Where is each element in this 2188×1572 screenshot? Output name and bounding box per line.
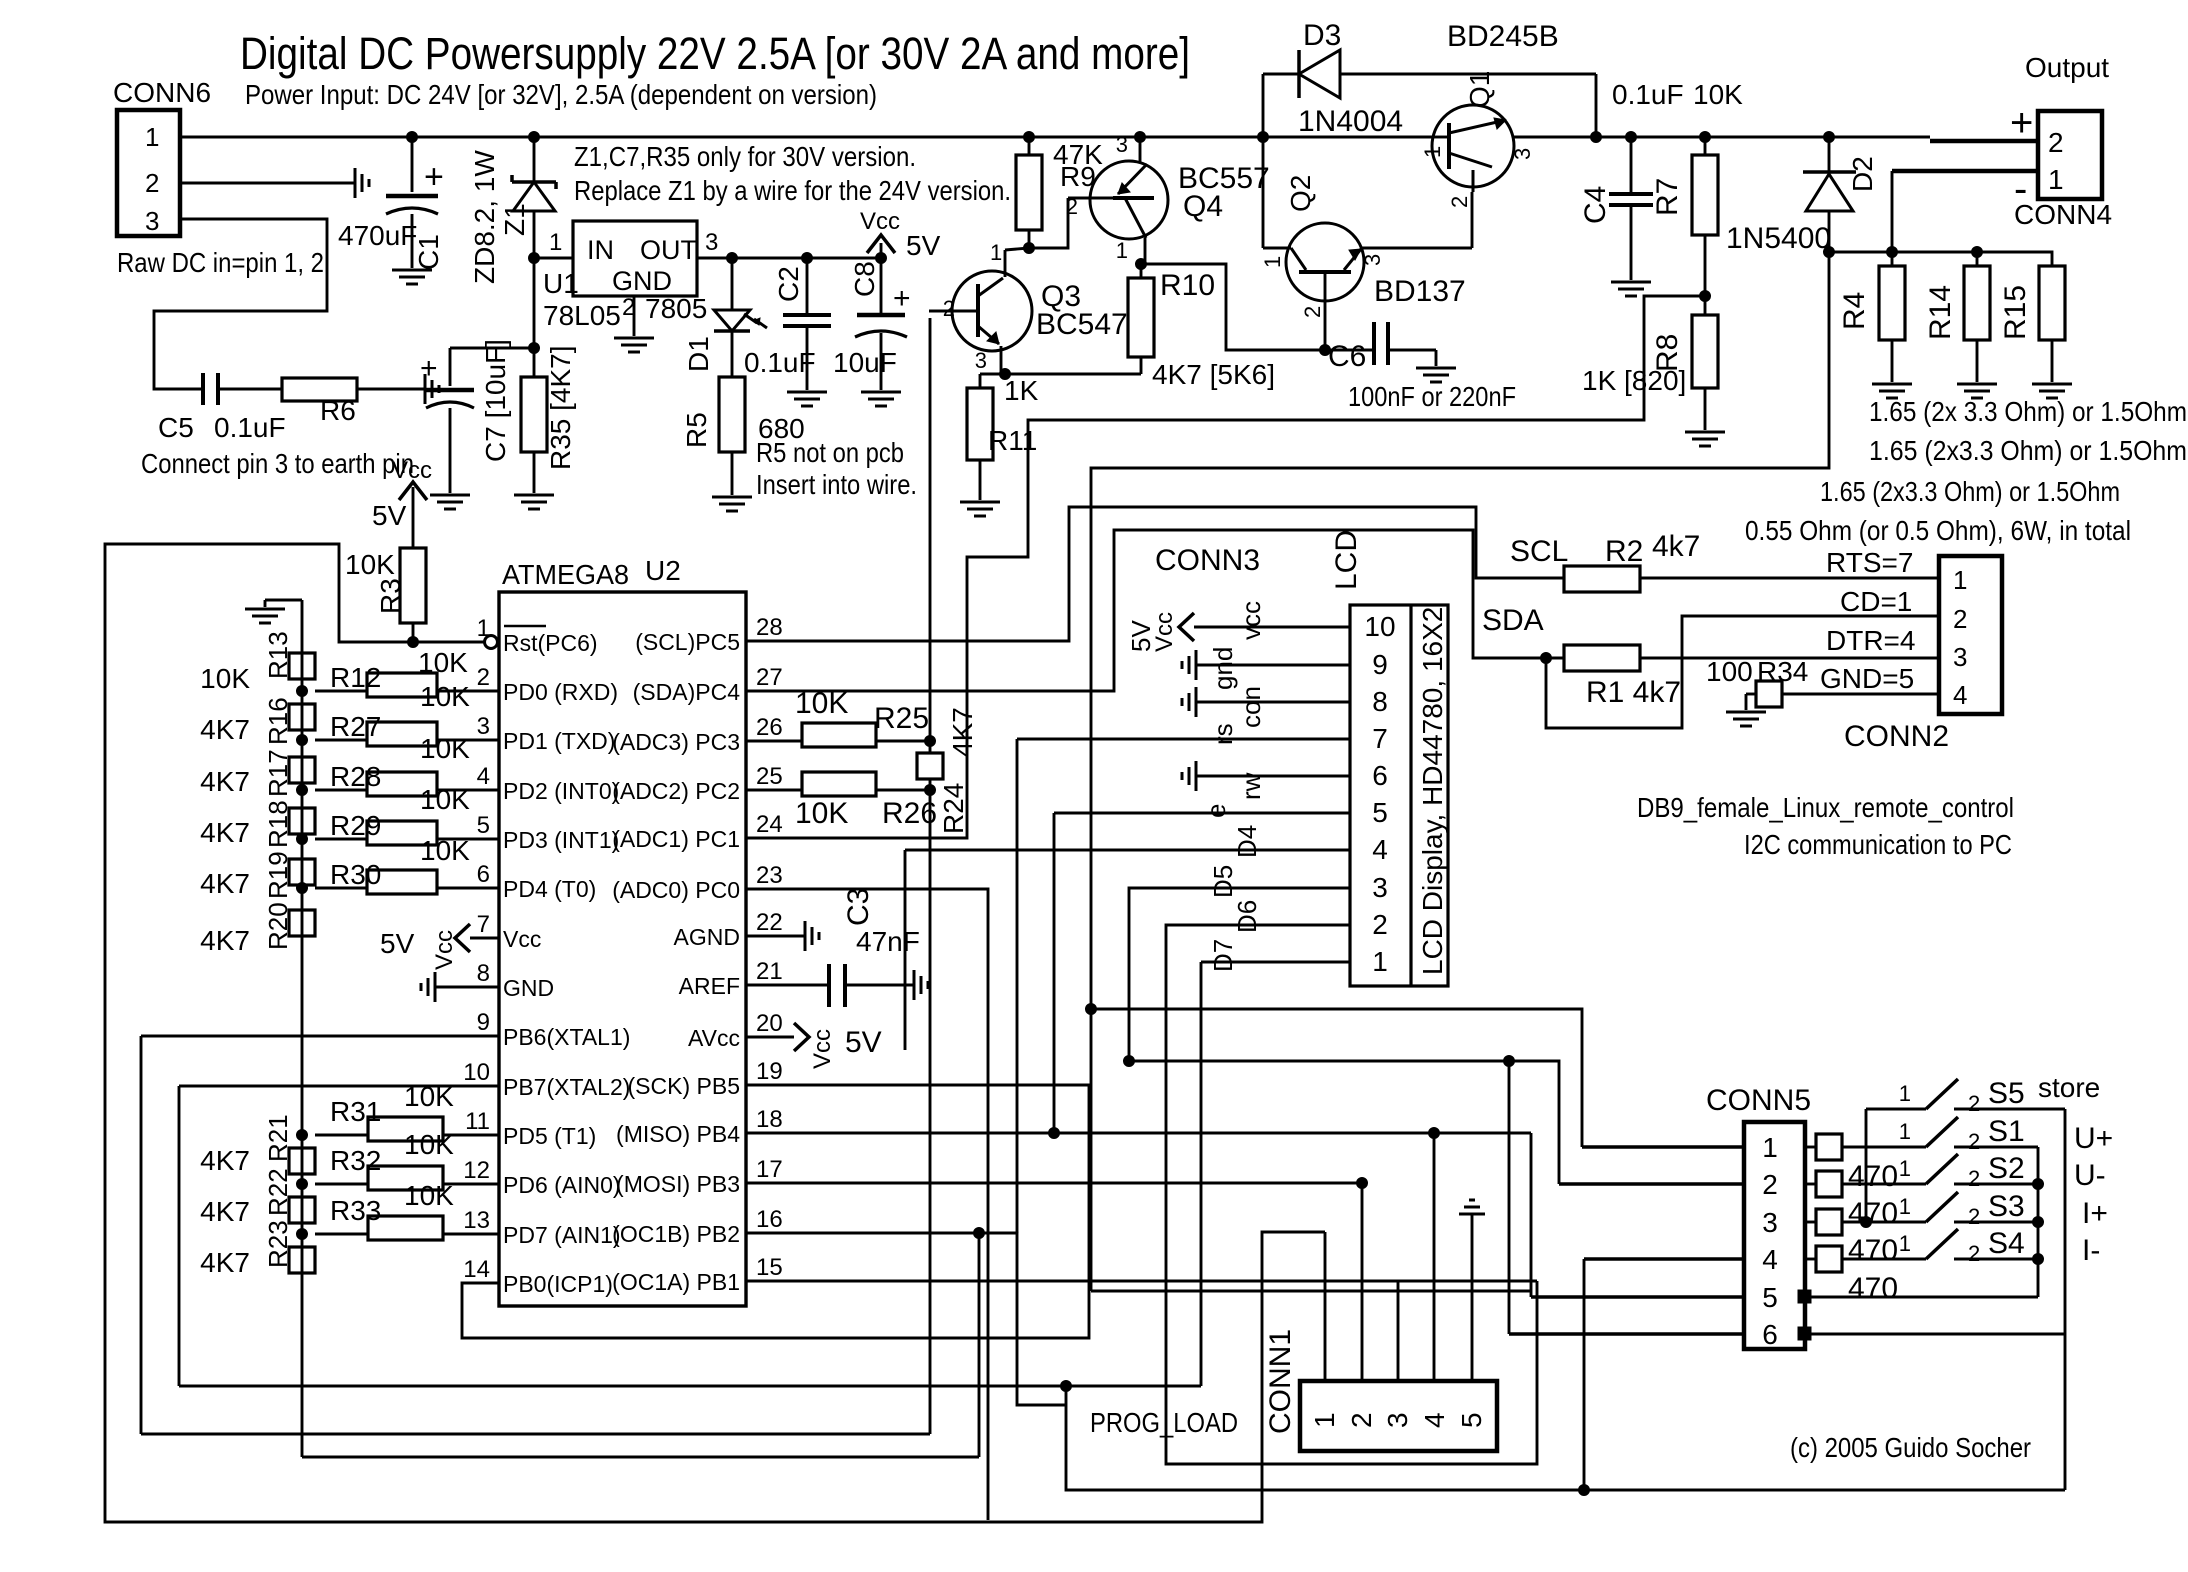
svg-text:3: 3 — [705, 229, 718, 256]
svg-text:5V: 5V — [372, 500, 407, 531]
svg-text:3: 3 — [477, 713, 490, 740]
svg-text:28: 28 — [756, 614, 783, 641]
svg-text:R23: R23 — [263, 1220, 293, 1268]
svg-text:1: 1 — [1953, 565, 1967, 595]
svg-text:R3: R3 — [375, 578, 406, 614]
svg-text:PD3 (INT1): PD3 (INT1) — [503, 827, 619, 853]
svg-text:4: 4 — [1372, 834, 1388, 865]
svg-text:5: 5 — [1456, 1412, 1487, 1428]
svg-text:2: 2 — [1447, 196, 1472, 208]
svg-text:1: 1 — [549, 229, 562, 256]
svg-text:+: + — [2010, 101, 2033, 145]
svg-text:1K [820]: 1K [820] — [1582, 365, 1686, 396]
svg-text:23: 23 — [756, 862, 783, 889]
svg-text:U+: U+ — [2074, 1122, 2113, 1155]
svg-text:100nF or 220nF: 100nF or 220nF — [1348, 381, 1516, 412]
svg-text:5V: 5V — [845, 1026, 882, 1059]
svg-text:1.65 (2x 3.3 Ohm) or 1.5Ohm: 1.65 (2x 3.3 Ohm) or 1.5Ohm — [1869, 396, 2187, 427]
svg-text:CONN1: CONN1 — [1264, 1329, 1297, 1434]
svg-text:4: 4 — [1953, 680, 1967, 710]
svg-text:PB0(ICP1): PB0(ICP1) — [503, 1271, 613, 1297]
svg-text:19: 19 — [756, 1058, 783, 1085]
svg-text:R2: R2 — [1605, 535, 1643, 568]
svg-text:7805: 7805 — [645, 293, 707, 324]
svg-text:R33: R33 — [330, 1195, 381, 1226]
svg-text:14: 14 — [463, 1256, 490, 1283]
svg-text:I2C communication to PC: I2C communication to PC — [1744, 829, 2012, 860]
svg-text:2: 2 — [1968, 1204, 1980, 1229]
svg-text:1: 1 — [1260, 256, 1285, 268]
svg-text:(OC1A) PB1: (OC1A) PB1 — [612, 1269, 740, 1295]
svg-text:SCL: SCL — [1510, 535, 1568, 568]
svg-text:PD1 (TXD): PD1 (TXD) — [503, 728, 615, 754]
svg-text:U1: U1 — [543, 268, 579, 299]
svg-text:4K7: 4K7 — [200, 925, 250, 956]
svg-text:CONN4: CONN4 — [2014, 199, 2112, 230]
svg-text:(MISO) PB4: (MISO) PB4 — [616, 1121, 740, 1147]
svg-text:4K7 [5K6]: 4K7 [5K6] — [1152, 359, 1275, 390]
svg-text:R35 [4K7]: R35 [4K7] — [545, 345, 576, 470]
svg-text:Vcc: Vcc — [809, 1029, 836, 1069]
svg-text:470: 470 — [1848, 1234, 1898, 1267]
svg-text:(SDA)PC4: (SDA)PC4 — [633, 679, 741, 705]
svg-text:15: 15 — [756, 1254, 783, 1281]
svg-text:R14: R14 — [1924, 285, 1957, 340]
svg-text:D5: D5 — [1208, 865, 1238, 898]
svg-text:Vcc: Vcc — [503, 926, 541, 952]
svg-text:gnd: gnd — [1208, 647, 1238, 690]
svg-text:6: 6 — [1762, 1319, 1778, 1350]
svg-text:R17: R17 — [263, 749, 293, 797]
svg-text:CONN2: CONN2 — [1844, 720, 1949, 753]
svg-text:1: 1 — [2048, 164, 2064, 195]
svg-text:R10: R10 — [1160, 269, 1215, 302]
svg-text:C2: C2 — [773, 266, 804, 302]
svg-text:e: e — [1201, 804, 1231, 818]
svg-text:2: 2 — [1372, 909, 1388, 940]
svg-text:R21: R21 — [263, 1114, 293, 1162]
svg-text:0.1uF: 0.1uF — [1612, 79, 1684, 110]
svg-text:R18: R18 — [263, 800, 293, 848]
svg-text:C4: C4 — [1579, 186, 1612, 224]
svg-text:5V: 5V — [380, 928, 415, 959]
svg-text:4K7: 4K7 — [200, 817, 250, 848]
svg-text:10K: 10K — [404, 1180, 454, 1211]
svg-text:R24: R24 — [938, 783, 969, 834]
svg-text:Connect pin 3 to earth pin: Connect pin 3 to earth pin — [141, 448, 414, 479]
svg-text:R4: R4 — [1838, 292, 1871, 330]
svg-text:Q4: Q4 — [1183, 190, 1223, 223]
svg-text:2: 2 — [1968, 1241, 1980, 1266]
svg-text:3: 3 — [1360, 254, 1385, 266]
svg-text:3: 3 — [1762, 1207, 1778, 1238]
svg-text:AREF: AREF — [679, 973, 740, 999]
svg-text:R19: R19 — [263, 851, 293, 899]
svg-text:4K7: 4K7 — [200, 868, 250, 899]
svg-text:1: 1 — [145, 122, 159, 152]
svg-text:Insert into wire.: Insert into wire. — [756, 469, 917, 500]
svg-text:78L05: 78L05 — [543, 300, 621, 331]
svg-text:3: 3 — [1116, 132, 1128, 157]
svg-text:27: 27 — [756, 664, 783, 691]
svg-text:1: 1 — [1899, 1119, 1911, 1144]
svg-text:1N4004: 1N4004 — [1298, 105, 1403, 138]
svg-text:5: 5 — [477, 812, 490, 839]
svg-text:PROG_LOAD: PROG_LOAD — [1090, 1407, 1238, 1438]
svg-text:Vcc: Vcc — [860, 208, 900, 235]
svg-text:R20: R20 — [263, 902, 293, 950]
svg-text:4: 4 — [477, 763, 490, 790]
svg-text:2: 2 — [1953, 604, 1967, 634]
svg-text:R6: R6 — [320, 395, 356, 426]
svg-text:S5: S5 — [1988, 1077, 2025, 1110]
svg-text:S1: S1 — [1988, 1115, 2025, 1148]
svg-text:C5: C5 — [158, 412, 194, 443]
svg-text:10K: 10K — [795, 797, 848, 830]
svg-text:D4: D4 — [1232, 825, 1262, 858]
svg-text:10K: 10K — [420, 733, 470, 764]
svg-text:(ADC1) PC1: (ADC1) PC1 — [612, 826, 740, 852]
svg-text:D6: D6 — [1232, 900, 1262, 933]
svg-text:R11: R11 — [988, 425, 1037, 456]
svg-text:3: 3 — [1510, 148, 1535, 160]
svg-text:3: 3 — [975, 348, 987, 373]
svg-text:1.65 (2x3.3 Ohm) or 1.5Ohm: 1.65 (2x3.3 Ohm) or 1.5Ohm — [1869, 435, 2187, 466]
svg-text:R5: R5 — [681, 412, 712, 448]
svg-text:OUT: OUT — [640, 235, 697, 265]
svg-text:PD4 (T0): PD4 (T0) — [503, 876, 596, 902]
svg-text:R25: R25 — [874, 702, 929, 735]
svg-text:RTS=7: RTS=7 — [1826, 547, 1913, 578]
svg-text:ATMEGA8: ATMEGA8 — [502, 559, 629, 590]
svg-text:GND: GND — [612, 266, 672, 296]
svg-text:1: 1 — [1372, 946, 1388, 977]
svg-text:10: 10 — [1364, 611, 1395, 642]
svg-text:store: store — [2038, 1072, 2100, 1103]
svg-text:PD2 (INT0): PD2 (INT0) — [503, 778, 619, 804]
svg-text:1: 1 — [990, 240, 1002, 265]
svg-text:Rst(PC6): Rst(PC6) — [503, 630, 598, 656]
svg-text:vcc: vcc — [1236, 601, 1266, 640]
svg-text:10K: 10K — [795, 687, 848, 720]
svg-text:4K7: 4K7 — [200, 1145, 250, 1176]
svg-text:470: 470 — [1848, 1197, 1898, 1230]
svg-text:6: 6 — [477, 861, 490, 888]
svg-text:1: 1 — [1309, 1412, 1340, 1428]
svg-text:0.55 Ohm (or 0.5 Ohm), 6W, in: 0.55 Ohm (or 0.5 Ohm), 6W, in total — [1745, 515, 2131, 546]
svg-text:AGND: AGND — [674, 924, 740, 950]
svg-text:12: 12 — [463, 1157, 490, 1184]
svg-text:10K: 10K — [404, 1129, 454, 1160]
svg-text:R5 not on pcb: R5 not on pcb — [756, 437, 904, 468]
svg-text:Q2: Q2 — [1285, 175, 1316, 212]
svg-text:1: 1 — [1899, 1081, 1911, 1106]
svg-text:(ADC0) PC0: (ADC0) PC0 — [612, 877, 740, 903]
svg-text:Vcc: Vcc — [1151, 612, 1178, 652]
svg-text:13: 13 — [463, 1207, 490, 1234]
svg-text:(c) 2005 Guido Socher: (c) 2005 Guido Socher — [1790, 1432, 2031, 1463]
svg-text:2: 2 — [1968, 1091, 1980, 1116]
svg-text:Vcc: Vcc — [431, 930, 458, 970]
svg-text:3: 3 — [145, 206, 159, 236]
svg-text:10K: 10K — [420, 784, 470, 815]
svg-text:Q1: Q1 — [1464, 71, 1495, 108]
svg-text:LCD: LCD — [1330, 530, 1363, 590]
svg-text:1: 1 — [1899, 1231, 1911, 1256]
svg-text:1.65 (2x3.3 Ohm) or 1.5Ohm: 1.65 (2x3.3 Ohm) or 1.5Ohm — [1820, 476, 2120, 507]
svg-text:(ADC3) PC3: (ADC3) PC3 — [612, 729, 740, 755]
svg-text:(MOSI) PB3: (MOSI) PB3 — [616, 1171, 740, 1197]
svg-text:10K: 10K — [1693, 79, 1743, 110]
svg-text:I-: I- — [2082, 1234, 2100, 1267]
svg-text:2: 2 — [477, 664, 490, 691]
svg-text:CD=1: CD=1 — [1840, 586, 1912, 617]
svg-text:1: 1 — [1899, 1194, 1911, 1219]
svg-text:16: 16 — [756, 1206, 783, 1233]
svg-text:R12: R12 — [330, 662, 381, 693]
svg-text:22: 22 — [756, 909, 783, 936]
svg-text:47nF: 47nF — [856, 926, 920, 957]
svg-text:I+: I+ — [2082, 1197, 2108, 1230]
svg-text:10K: 10K — [420, 835, 470, 866]
svg-text:C1: C1 — [413, 234, 444, 270]
svg-text:R7: R7 — [1651, 178, 1684, 216]
svg-text:+: + — [424, 158, 444, 196]
svg-text:Vcc: Vcc — [392, 457, 432, 484]
svg-text:1N5400: 1N5400 — [1726, 222, 1831, 255]
svg-text:4K7: 4K7 — [200, 1196, 250, 1227]
svg-text:GND: GND — [503, 975, 554, 1001]
svg-text:10K: 10K — [420, 681, 470, 712]
svg-text:3: 3 — [1953, 642, 1967, 672]
svg-text:5: 5 — [1372, 797, 1388, 828]
svg-text:24: 24 — [756, 811, 783, 838]
svg-text:8: 8 — [1372, 686, 1388, 717]
svg-text:470: 470 — [1848, 1272, 1898, 1305]
svg-text:con: con — [1236, 686, 1266, 728]
svg-text:R28: R28 — [330, 761, 381, 792]
svg-text:(SCL)PC5: (SCL)PC5 — [635, 629, 740, 655]
svg-text:4K7: 4K7 — [200, 1247, 250, 1278]
svg-text:10uF: 10uF — [833, 347, 897, 378]
svg-text:C8: C8 — [849, 261, 880, 297]
svg-text:11: 11 — [465, 1108, 490, 1135]
svg-text:BD137: BD137 — [1374, 275, 1466, 308]
svg-text:5: 5 — [1762, 1282, 1778, 1313]
svg-text:CONN6: CONN6 — [113, 77, 211, 108]
svg-text:SDA: SDA — [1482, 604, 1544, 637]
svg-text:2: 2 — [1066, 194, 1078, 219]
svg-text:PB7(XTAL2): PB7(XTAL2) — [503, 1074, 630, 1100]
svg-text:PD7 (AIN1): PD7 (AIN1) — [503, 1222, 621, 1248]
svg-text:4: 4 — [1762, 1244, 1778, 1275]
svg-text:1: 1 — [1420, 146, 1445, 158]
svg-text:S3: S3 — [1988, 1190, 2025, 1223]
svg-text:IN: IN — [587, 235, 614, 265]
svg-text:(SCK) PB5: (SCK) PB5 — [628, 1073, 740, 1099]
svg-text:0.1uF: 0.1uF — [744, 347, 816, 378]
svg-text:18: 18 — [756, 1106, 783, 1133]
svg-text:Output: Output — [2025, 52, 2109, 83]
svg-text:Raw DC in=pin 1, 2: Raw DC in=pin 1, 2 — [117, 247, 324, 278]
svg-text:PD0 (RXD): PD0 (RXD) — [503, 679, 618, 705]
svg-text:3: 3 — [1372, 872, 1388, 903]
svg-text:D3: D3 — [1303, 19, 1341, 52]
svg-text:2: 2 — [1346, 1412, 1377, 1428]
svg-text:Z1: Z1 — [499, 203, 530, 236]
svg-text:9: 9 — [477, 1009, 490, 1036]
svg-text:R15: R15 — [1999, 285, 2032, 340]
svg-text:1: 1 — [1762, 1132, 1778, 1163]
svg-text:C3: C3 — [842, 888, 875, 926]
svg-text:S4: S4 — [1988, 1227, 2025, 1260]
svg-text:25: 25 — [756, 763, 783, 790]
svg-text:100: 100 — [1706, 656, 1753, 687]
svg-text:U2: U2 — [645, 555, 681, 586]
svg-text:R1 4k7: R1 4k7 — [1586, 676, 1681, 709]
svg-text:R29: R29 — [330, 810, 381, 841]
svg-text:CONN5: CONN5 — [1706, 1084, 1811, 1117]
svg-text:C6: C6 — [1328, 340, 1366, 373]
svg-text:2: 2 — [943, 296, 955, 321]
svg-text:26: 26 — [756, 714, 783, 741]
svg-text:CONN3: CONN3 — [1155, 544, 1260, 577]
svg-text:1: 1 — [1116, 238, 1128, 263]
svg-text:1K: 1K — [1004, 375, 1039, 406]
svg-text:8: 8 — [477, 960, 490, 987]
svg-text:rw: rw — [1236, 772, 1266, 800]
svg-text:4K7: 4K7 — [947, 707, 978, 757]
svg-text:0.1uF: 0.1uF — [214, 412, 286, 443]
svg-text:4: 4 — [1419, 1412, 1450, 1428]
svg-text:C7 [10uF]: C7 [10uF] — [480, 339, 511, 462]
svg-text:2: 2 — [1968, 1166, 1980, 1191]
svg-text:2: 2 — [145, 168, 159, 198]
svg-text:4K7: 4K7 — [200, 766, 250, 797]
svg-text:ZD8.2, 1W: ZD8.2, 1W — [469, 150, 500, 284]
svg-text:(ADC2) PC2: (ADC2) PC2 — [612, 778, 740, 804]
svg-text:470uF: 470uF — [338, 220, 417, 251]
svg-text:PD6 (AIN0): PD6 (AIN0) — [503, 1172, 621, 1198]
svg-text:GND=5: GND=5 — [1820, 663, 1914, 694]
svg-text:3: 3 — [1382, 1412, 1413, 1428]
svg-text:R9: R9 — [1060, 161, 1096, 192]
svg-text:Z1,C7,R35 only for 30V version: Z1,C7,R35 only for 30V version. — [574, 141, 916, 172]
svg-text:BC547: BC547 — [1036, 308, 1128, 341]
svg-text:AVcc: AVcc — [688, 1025, 740, 1051]
svg-text:10K: 10K — [200, 663, 250, 694]
svg-text:DTR=4: DTR=4 — [1826, 625, 1915, 656]
svg-text:10K: 10K — [345, 549, 395, 580]
svg-text:5V: 5V — [906, 230, 941, 261]
svg-text:R13: R13 — [263, 631, 293, 679]
svg-text:17: 17 — [756, 1156, 783, 1183]
svg-text:Replace Z1 by a wire for the 2: Replace Z1 by a wire for the 24V version… — [574, 175, 1011, 206]
svg-text:D7: D7 — [1208, 939, 1238, 972]
svg-text:6: 6 — [1372, 760, 1388, 791]
svg-text:470: 470 — [1848, 1160, 1898, 1193]
svg-text:PD5 (T1): PD5 (T1) — [503, 1123, 596, 1149]
svg-text:DB9_female_Linux_remote_contro: DB9_female_Linux_remote_control — [1637, 792, 2014, 823]
svg-text:D2: D2 — [1847, 156, 1878, 192]
svg-text:7: 7 — [477, 911, 490, 938]
svg-text:PB6(XTAL1): PB6(XTAL1) — [503, 1024, 630, 1050]
svg-text:R16: R16 — [263, 697, 293, 745]
svg-text:+: + — [420, 352, 438, 385]
svg-text:4k7: 4k7 — [1652, 530, 1700, 563]
svg-text:U-: U- — [2074, 1159, 2106, 1192]
svg-text:rs: rs — [1208, 723, 1238, 745]
svg-text:R31: R31 — [330, 1096, 381, 1127]
svg-text:21: 21 — [756, 958, 783, 985]
svg-text:10: 10 — [463, 1059, 490, 1086]
svg-text:2: 2 — [1300, 306, 1325, 318]
svg-text:+: + — [893, 282, 911, 315]
svg-text:2: 2 — [1762, 1169, 1778, 1200]
svg-text:R22: R22 — [263, 1168, 293, 1216]
svg-text:Digital DC Powersupply 22V 2.5: Digital DC Powersupply 22V 2.5A [or 30V … — [240, 28, 1190, 79]
svg-text:R30: R30 — [330, 859, 381, 890]
svg-text:Power Input: DC 24V [or 32V],: Power Input: DC 24V [or 32V], 2.5A (depe… — [245, 79, 877, 110]
svg-text:20: 20 — [756, 1010, 783, 1037]
svg-text:D1: D1 — [683, 336, 714, 372]
svg-text:7: 7 — [1372, 723, 1388, 754]
svg-text:BD245B: BD245B — [1447, 20, 1559, 53]
svg-text:2: 2 — [1968, 1129, 1980, 1154]
svg-text:1: 1 — [1899, 1156, 1911, 1181]
svg-text:(OC1B) PB2: (OC1B) PB2 — [612, 1221, 740, 1247]
svg-text:4K7: 4K7 — [200, 714, 250, 745]
svg-text:R32: R32 — [330, 1145, 381, 1176]
svg-text:S2: S2 — [1988, 1152, 2025, 1185]
svg-text:9: 9 — [1372, 649, 1388, 680]
svg-text:2: 2 — [2048, 127, 2064, 158]
svg-text:LCD Display, HD44780, 16X2: LCD Display, HD44780, 16X2 — [1417, 607, 1448, 975]
svg-text:R27: R27 — [330, 711, 381, 742]
